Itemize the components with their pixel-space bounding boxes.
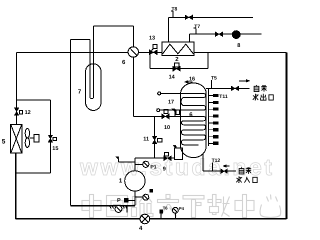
wire: suction line y=158.2 compressor to filter box	[135, 157, 175, 159]
wire: condenser 5 outlet down to bottom border	[15, 153, 17, 219]
wire: tank drain pipe	[202, 153, 204, 171]
wire: vent line 1 horizontal y=17.3	[168, 16, 252, 18]
heat exchanger 2	[162, 42, 194, 55]
wire: discharge horizontal to compressor bottom	[71, 205, 135, 207]
tank coil rows	[181, 93, 206, 110]
svg-text:P4: P4	[179, 206, 185, 211]
wire: bypass bottom line y=68.7 with valve 14	[150, 68, 208, 70]
gauge P4 on bottom line	[175, 213, 177, 219]
svg-text:5: 5	[2, 138, 6, 145]
heater fins	[209, 95, 218, 145]
wire: coil outlet pipe with circle 17b	[157, 109, 160, 112]
wire: vent line 2 horizontal y=34.2 with pump 8	[189, 33, 261, 35]
svg-text:T6: T6	[163, 205, 169, 210]
svg-text:13: 13	[149, 36, 155, 42]
text 水出口 (outlet)	[253, 94, 258, 100]
wire: U-tube bottom bend	[90, 97, 94, 99]
svg-text:10: 10	[164, 125, 170, 131]
sensor T5 stub	[210, 80, 212, 89]
text 自来 (inlet)	[239, 167, 244, 174]
compressor 1	[125, 171, 145, 191]
heater element rod	[208, 88, 210, 146]
wire: U-tube leg A from top box	[93, 26, 95, 97]
P tap square on discharge	[125, 199, 128, 202]
svg-text:T12: T12	[212, 158, 221, 164]
valve on line 2	[215, 32, 222, 36]
svg-text:11: 11	[143, 137, 149, 143]
wire: bypass left vertical x=149.9	[149, 52, 151, 68]
svg-text:P1: P1	[150, 165, 156, 171]
svg-text:T11: T11	[219, 94, 228, 100]
flag square near gauge	[150, 190, 153, 193]
sensor flag T4 on valve-10 line	[172, 109, 180, 117]
svg-text:T8: T8	[172, 7, 178, 13]
gauge P1	[135, 163, 143, 165]
valve 11	[152, 136, 161, 144]
svg-text:P: P	[117, 198, 121, 204]
oil separator 7 capsule	[86, 64, 101, 111]
wire: condenser bypass top y=100	[16, 99, 50, 101]
wire: coil inlet pipe with circle 17a	[158, 92, 161, 95]
wire: compressor discharge vertical	[134, 191, 136, 206]
inlet valve	[221, 169, 227, 173]
text 自来 (outlet)	[254, 85, 259, 92]
wire: valve-10 line y=116.4 into tank coil	[133, 115, 180, 117]
sensor T12 stub	[211, 162, 213, 171]
arrow 16 into tank dome	[188, 81, 193, 83]
wire: top jog y=39.7	[71, 39, 90, 41]
flex connector ticks	[110, 206, 127, 208]
valve 10 with actuator	[162, 110, 169, 119]
svg-text:T5: T5	[211, 75, 217, 81]
text 水入口 (inlet)	[236, 176, 241, 182]
wire: tall vertical x=70.7	[70, 40, 72, 206]
expansion valve 12	[15, 108, 23, 115]
svg-text:14: 14	[169, 75, 176, 81]
svg-text:8: 8	[237, 43, 240, 49]
sight glass 4	[140, 214, 150, 224]
svg-text:17: 17	[168, 100, 174, 106]
svg-text:T7: T7	[194, 24, 200, 30]
wire: bottom border line	[16, 218, 287, 220]
wire: U-tube leg B down from jog	[89, 40, 91, 97]
suction gauge line with flag	[118, 159, 134, 162]
water tank shell	[181, 83, 207, 158]
solenoid valve 13	[149, 44, 157, 54]
outlet flow arrow	[239, 80, 247, 82]
pump 8	[232, 31, 240, 39]
wire: right border vertical	[286, 52, 288, 219]
expansion valve 15	[48, 135, 56, 142]
watermark 中国论文下载中心	[82, 195, 281, 218]
wire: long horizontal main line y=52.3 from left corner to heat exchanger	[16, 51, 162, 53]
svg-text:15: 15	[52, 146, 58, 152]
sensor T8 stem on line 1	[171, 11, 173, 17]
discharge gauge line	[135, 196, 143, 198]
wire: vertical x=154.6 down through valve 11 to suction line	[154, 116, 156, 158]
valve 14 with actuator	[173, 63, 180, 71]
svg-text:9: 9	[163, 166, 166, 172]
valve on line 1	[185, 15, 192, 19]
wire: cold water inlet line	[203, 170, 236, 172]
outlet valve	[231, 86, 238, 90]
sensor T7 stem on line 2	[194, 28, 196, 34]
wire: vent line 2 riser x=189.3	[188, 34, 190, 42]
filter box with flag	[173, 145, 182, 159]
air condenser 5	[11, 125, 23, 154]
wire: bypass vertical x=50.4 through valve 15	[49, 100, 51, 173]
wire: top box y=25.9	[94, 25, 134, 27]
gauge on discharge horizontal	[115, 206, 122, 213]
wire: left vertical x=16.4 down from corner through valve 12 to condenser 5	[15, 52, 17, 124]
wire: top-right horizontal from heat exchanger to right border	[194, 51, 287, 53]
svg-text:16: 16	[189, 77, 195, 83]
sensor T6 on bottom line	[160, 213, 162, 219]
wire: hot water outlet line	[206, 87, 249, 89]
wire: bypass bottom y=173	[16, 172, 51, 174]
drain stub on discharge line	[126, 206, 128, 213]
wire: vertical x=133.3 from box to circle 6 and down to valve-10 line	[132, 26, 134, 117]
wire: vent line 1 riser x=168.4	[167, 17, 169, 42]
valve 9 with actuator	[164, 152, 171, 160]
svg-text:12: 12	[25, 110, 31, 116]
inlet flow arrow	[226, 165, 230, 167]
wire: bypass vertical at x=207.8	[207, 52, 209, 68]
fan motor	[30, 137, 34, 139]
four-way valve 6	[128, 47, 138, 57]
fan blades	[25, 129, 29, 138]
wire: compressor suction vertical	[134, 158, 136, 171]
